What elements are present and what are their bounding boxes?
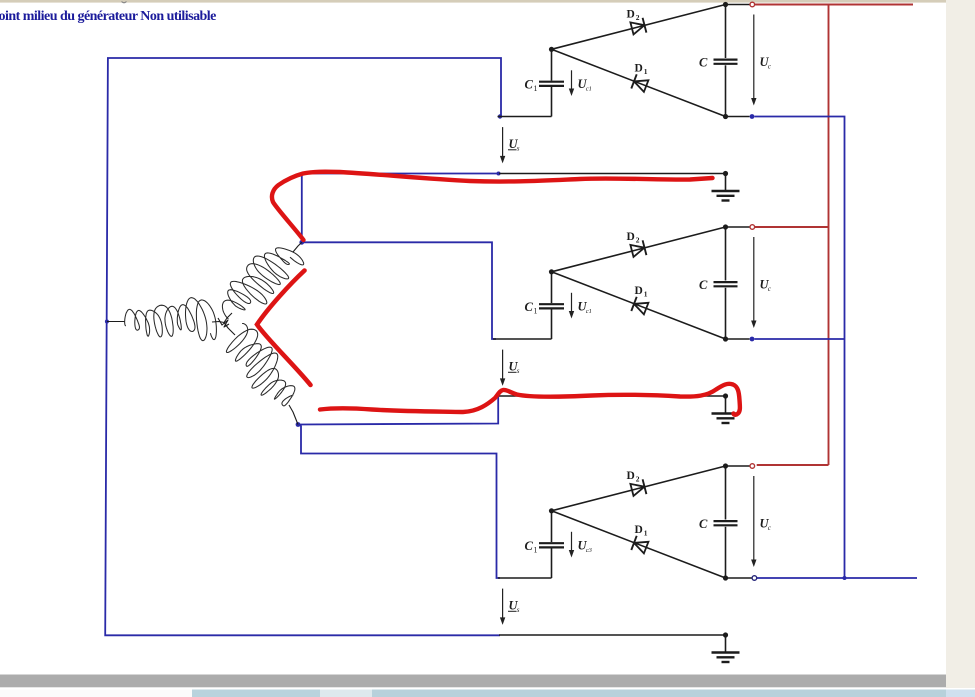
- label Us, circuit 1: [508, 137, 520, 153]
- node: bottom output, circuit 1: [723, 114, 728, 119]
- label D2, circuit 1: [627, 9, 640, 23]
- capacitor C1, circuit 2: [539, 304, 564, 308]
- svg-text:C: C: [525, 300, 534, 314]
- node: blue junction at circuit 1 input: [498, 114, 502, 118]
- svg-text:C: C: [525, 539, 534, 553]
- capacitor C1, circuit 1: [539, 82, 564, 86]
- svg-text:1: 1: [534, 84, 538, 93]
- terminal: negative output, circuit 1: [726, 114, 755, 119]
- node B: phase node (generator to circuits 2/3): [296, 422, 301, 427]
- voltage arrow Uc, circuit 1: [751, 15, 756, 106]
- node: vertex, circuit 1: [549, 47, 554, 52]
- node: blue bus junction at bottom: [843, 576, 847, 580]
- node: generator left terminal tick: [105, 320, 109, 324]
- svg-text:s: s: [517, 145, 520, 153]
- wire: return line to ground, circuit 2: [499, 395, 726, 397]
- node: top output, circuit 1: [723, 2, 728, 7]
- wire: blue bottom output run: [757, 577, 917, 579]
- wire: lower line from bottom node through D1 to vertex, circuit 3: [552, 511, 726, 578]
- wire: right vertical between output nodes, circuit 1: [725, 5, 727, 117]
- svg-text:D: D: [635, 524, 643, 536]
- wire: blue return of circuit 2 to phase node B: [298, 396, 498, 425]
- label C, circuit 2: [699, 278, 708, 292]
- voltage arrow Us, circuit 3: [500, 589, 505, 625]
- ground, circuit 3: [712, 635, 740, 662]
- svg-text:C: C: [699, 278, 708, 292]
- svg-text:C: C: [699, 517, 708, 531]
- node A: phase node (generator to circuits 1/2): [299, 240, 304, 245]
- wire: red bus link from circuit 3: [757, 464, 829, 466]
- voltage arrow Uc1, circuit 1: [569, 70, 574, 96]
- svg-text:1: 1: [644, 529, 648, 538]
- wire: return line to ground, circuit 1: [499, 173, 726, 175]
- ground, circuit 1: [712, 174, 740, 201]
- svg-text:1: 1: [644, 67, 648, 76]
- right side panel strip: [946, 0, 975, 688]
- wire: anode line from node to D2 top-right, circuit 2: [552, 227, 726, 272]
- svg-text:D: D: [627, 231, 635, 243]
- title: Point milieu du générateur Non utilisable: [0, 9, 216, 24]
- wire: C1 branch vertical, circuit 2: [551, 272, 553, 339]
- terminal: negative output circle, circuit 3: [726, 576, 757, 581]
- wire: blue negative bus from circuit 1, vertical: [754, 117, 844, 579]
- wire: lower line from bottom node through D1 to vertex, circuit 1: [552, 49, 726, 116]
- label Uc, circuit 2: [760, 278, 772, 294]
- wire: red positive bus, vertical: [828, 5, 830, 466]
- label D1, circuit 1: [635, 63, 648, 77]
- wire: input line to C1 bottom, circuit 1: [498, 116, 552, 118]
- generator winding: phase U (horizontal coil): [107, 298, 224, 341]
- node: ground junction, circuit 2: [723, 393, 728, 398]
- stray glyph fragment at top: [122, 2, 127, 3]
- svg-text:s: s: [517, 606, 520, 614]
- svg-text:C: C: [525, 78, 534, 92]
- svg-text:D: D: [627, 9, 635, 21]
- diode D2, circuit 1: [630, 18, 646, 35]
- voltage arrow Uc, circuit 3: [751, 476, 756, 567]
- node: bottom output, circuit 3: [723, 575, 728, 580]
- voltage arrow Uc1, circuit 2: [569, 293, 574, 319]
- node: vertex, circuit 3: [549, 508, 554, 513]
- wire: blue feed from node B to circuit 3 input: [298, 425, 500, 579]
- diode D2, circuit 2: [630, 240, 646, 257]
- terminal: positive output circle, circuit 3: [726, 464, 755, 469]
- ground, circuit 2: [712, 396, 740, 423]
- voltage arrow Us, circuit 2: [500, 350, 505, 386]
- node: blue tick on circuit 1 return: [497, 172, 501, 176]
- label Uc, circuit 3: [760, 517, 772, 533]
- label Us, circuit 3: [508, 599, 520, 615]
- node: bottom output, circuit 2: [723, 336, 728, 341]
- red annotation: stroke around node A and along circuit 1 return: [272, 172, 713, 240]
- label Uc1, circuit 1: [578, 77, 592, 93]
- label D2, circuit 2: [627, 231, 640, 245]
- generator winding: phase V (upper-right coil): [222, 242, 303, 322]
- diode D1, circuit 3: [631, 536, 648, 554]
- label D1, circuit 2: [635, 285, 648, 299]
- wire: input line to C1 bottom, circuit 3: [498, 577, 552, 579]
- svg-text:1: 1: [644, 290, 648, 299]
- label D2, circuit 3: [627, 470, 640, 484]
- wire: right vertical between output nodes, circuit 3: [725, 466, 727, 578]
- voltage arrow Us, circuit 1: [500, 127, 505, 163]
- bottom taskbar strip: [0, 690, 975, 697]
- label Uc1, circuit 2: [578, 300, 592, 316]
- wire: red bus link from circuit 2: [755, 226, 829, 228]
- svg-text:2: 2: [636, 13, 640, 22]
- diode D1, circuit 1: [631, 74, 648, 92]
- node: ground junction, circuit 1: [723, 171, 728, 176]
- red annotation: chevron at star point: [257, 271, 311, 386]
- bottom gray status bar: [0, 675, 946, 688]
- node: top output, circuit 2: [723, 224, 728, 229]
- label Uc, circuit 1: [760, 55, 772, 71]
- capacitor C1, circuit 3: [539, 543, 564, 547]
- wire: C1 branch vertical, circuit 3: [551, 511, 553, 578]
- label Us, circuit 2: [508, 360, 520, 376]
- capacitor C, circuit 1: [714, 60, 738, 64]
- label Uc3, circuit 3: [578, 539, 593, 555]
- wire: red positive bus, top run from circuit 1: [755, 4, 913, 6]
- top window border strip: [0, 0, 975, 3]
- svg-text:C: C: [699, 56, 708, 70]
- wire: C1 branch vertical, circuit 1: [551, 49, 553, 116]
- svg-text:c1: c1: [586, 308, 592, 315]
- label C, circuit 1: [699, 56, 708, 70]
- label C1, circuit 1: [525, 78, 538, 94]
- svg-text:D: D: [635, 285, 643, 297]
- generator winding: phase W (lower-right coil): [224, 323, 298, 425]
- diode D1, circuit 2: [631, 297, 648, 315]
- label C1, circuit 3: [525, 539, 538, 555]
- generator star point: [218, 318, 229, 327]
- wire: right vertical between output nodes, circuit 2: [725, 227, 727, 339]
- svg-text:s: s: [517, 367, 520, 375]
- node: top output, circuit 3: [723, 463, 728, 468]
- label C1, circuit 2: [525, 300, 538, 316]
- svg-text:2: 2: [636, 236, 640, 245]
- voltage arrow Uc1, circuit 3: [569, 532, 574, 558]
- voltage arrow Uc, circuit 2: [751, 237, 756, 328]
- wire: blue bus link from circuit 2: [754, 338, 844, 340]
- wire: outer blue loop (left vertical, top feed to circuit 1, bottom feed to circuit 3 ground): [105, 58, 501, 635]
- capacitor C, circuit 3: [714, 521, 738, 525]
- wire: return line to ground, circuit 3: [499, 634, 726, 636]
- wire: lower line from bottom node through D1 to vertex, circuit 2: [552, 272, 726, 339]
- node: ground junction, circuit 3: [723, 632, 728, 637]
- wire: blue feed from node A to circuit 2 input: [302, 242, 496, 339]
- svg-text:1: 1: [534, 307, 538, 316]
- svg-text:1: 1: [534, 546, 538, 555]
- svg-text:D: D: [627, 470, 635, 482]
- svg-text:c1: c1: [586, 86, 592, 93]
- wire: anode line from node to D2 top-right, circuit 3: [552, 466, 726, 511]
- terminal: negative output, circuit 2: [726, 337, 755, 342]
- terminal: positive output circle, circuit 1: [726, 2, 755, 7]
- label C, circuit 3: [699, 517, 708, 531]
- capacitor C, circuit 2: [714, 282, 738, 286]
- svg-text:Point milieu du générateur Non: Point milieu du générateur Non utilisabl…: [0, 9, 216, 24]
- wire: blue return of circuit 1 to phase node A: [302, 174, 499, 243]
- node: vertex, circuit 2: [549, 269, 554, 274]
- diode D2, circuit 3: [630, 479, 646, 496]
- wire: input line to C1 bottom, circuit 2: [493, 338, 552, 340]
- svg-text:2: 2: [636, 475, 640, 484]
- label D1, circuit 3: [635, 524, 648, 538]
- wire: anode line from node to D2 top-right, circuit 1: [552, 5, 726, 50]
- terminal: positive output circle, circuit 2: [726, 225, 755, 230]
- red annotation: stroke along circuit 2 return with end curl: [320, 384, 740, 415]
- svg-text:D: D: [635, 63, 643, 75]
- svg-text:c3: c3: [586, 547, 593, 554]
